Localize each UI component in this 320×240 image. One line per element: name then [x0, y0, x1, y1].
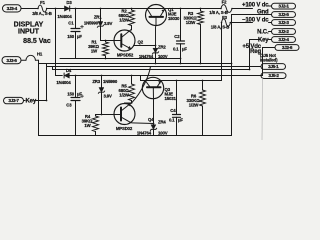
svg-text:3J2-1: 3J2-1: [278, 4, 289, 9]
wire Q4 emitter: [132, 122, 154, 125]
label +5 Vdc Reg: [242, 44, 278, 62]
wire Key link: [35, 100, 47, 102]
svg-text:1N5990: 1N5990: [103, 79, 118, 84]
wire 3J2-6 drop: [263, 48, 276, 76]
resistor R3: [184, 8, 204, 65]
bus B1 ground collect: [60, 58, 181, 60]
wire N.C. stub: [269, 31, 272, 33]
svg-text:µF: µF: [77, 91, 82, 96]
resistor R5: [118, 75, 134, 103]
bus B4: [53, 67, 250, 70]
wire -100 riser: [221, 23, 223, 81]
capacitor C2: [173, 8, 187, 65]
bus B2: [39, 60, 232, 63]
connector 3J2-5: [272, 12, 296, 18]
scan crease: [261, 79, 264, 141]
fuse F2: [209, 0, 233, 15]
wire Key riser left: [46, 64, 48, 101]
svg-text:1/2W: 1/2W: [119, 17, 130, 22]
svg-text:C4: C4: [170, 108, 176, 113]
svg-text:ZR3: ZR3: [92, 79, 100, 84]
svg-text:3J5-1: 3J5-1: [268, 64, 279, 69]
zener ZR3: [92, 75, 118, 115]
svg-text:DISPLAY: DISPLAY: [14, 22, 44, 29]
wire top rail: [21, 8, 38, 10]
svg-text:Q2: Q2: [138, 40, 144, 45]
svg-text:3J2-3: 3J2-3: [278, 20, 289, 25]
wire -100 row: [230, 22, 252, 24]
svg-text:H1: H1: [37, 52, 43, 57]
svg-text:D4: D4: [66, 68, 72, 73]
capacitor C4: [169, 80, 183, 136]
jumper H1: [21, 52, 43, 61]
svg-text:1N4004: 1N4004: [57, 14, 72, 19]
svg-text:MPSD52: MPSD52: [117, 53, 134, 58]
transistor Q3: [142, 77, 176, 101]
capacitor C1: [67, 8, 83, 59]
svg-text:3J3-6: 3J3-6: [6, 58, 17, 63]
svg-text:D3: D3: [66, 0, 72, 5]
wire Gnd row: [232, 14, 272, 16]
svg-text:1W: 1W: [91, 48, 98, 53]
svg-text:µF: µF: [178, 118, 183, 123]
wire bottom rail: [39, 135, 232, 137]
wire base line Q4: [96, 114, 122, 116]
svg-text:3.9V: 3.9V: [104, 93, 113, 98]
svg-text:ZR2: ZR2: [158, 44, 166, 49]
svg-text:F1: F1: [40, 0, 45, 5]
svg-text:1N5990: 1N5990: [84, 21, 99, 26]
wire base line Q2: [101, 40, 122, 42]
resistor R1: [88, 39, 108, 59]
svg-text:Key: Key: [26, 99, 37, 105]
svg-text:Installed): Installed): [260, 57, 278, 62]
connector 3J5-2: [261, 73, 286, 79]
wire Key riser right: [249, 40, 251, 70]
connector 3J2-6: [275, 45, 299, 51]
svg-text:3J2-5: 3J2-5: [278, 12, 289, 17]
svg-text:C2: C2: [174, 34, 180, 39]
svg-text:3J3-7: 3J3-7: [8, 98, 19, 103]
svg-text:3J2-6: 3J2-6: [282, 45, 293, 50]
connector 3J2-3: [272, 20, 296, 26]
svg-text:150: 150: [67, 91, 74, 96]
svg-text:100V: 100V: [158, 130, 168, 135]
svg-text:ZR4: ZR4: [158, 120, 166, 125]
connector 3J3-6: [2, 57, 21, 64]
wire Q2 emitter: [134, 45, 156, 47]
svg-text:−100 V dc: −100 V dc: [242, 18, 269, 24]
svg-text:1/2W: 1/2W: [119, 92, 130, 97]
transistor Q1: [146, 5, 180, 26]
zener ZR2: [139, 26, 168, 65]
connector 3J2-4: [272, 37, 296, 43]
svg-text:3.9V: 3.9V: [104, 21, 113, 26]
svg-text:F2: F2: [222, 0, 227, 5]
svg-text:150: 150: [67, 34, 74, 39]
fuse F3: [211, 15, 231, 30]
svg-text:1/2W: 1/2W: [186, 20, 197, 25]
svg-text:Key: Key: [258, 37, 269, 43]
svg-text:Gnd: Gnd: [257, 9, 269, 15]
connector 3J2-1: [272, 3, 296, 9]
svg-text:1/2W: 1/2W: [189, 102, 200, 107]
svg-text:15030: 15030: [168, 16, 180, 21]
svg-text:N.C.: N.C.: [257, 29, 269, 35]
transistor Q4: [114, 103, 154, 131]
transistor Q2: [114, 30, 144, 58]
wire bottom AC rail: [56, 75, 63, 77]
connector 3J3-4: [3, 5, 22, 12]
svg-text:88.5 Vac: 88.5 Vac: [23, 38, 51, 45]
svg-text:1W: 1W: [84, 123, 91, 128]
resistor R6: [187, 80, 206, 136]
svg-text:3J5-2: 3J5-2: [268, 73, 279, 78]
diode D4: [56, 68, 71, 85]
connector 3J2-2: [272, 29, 296, 35]
connector 3J3-7: [4, 97, 24, 103]
svg-text:0.1: 0.1: [169, 118, 175, 123]
svg-text:1/8 A, S-B: 1/8 A, S-B: [211, 25, 229, 30]
svg-text:1N4764: 1N4764: [137, 130, 152, 135]
svg-text:15031: 15031: [165, 96, 177, 101]
wire keying curve: [132, 67, 151, 103]
capacitor C3: [66, 75, 83, 136]
resistor R2: [118, 8, 134, 30]
svg-text:0.1: 0.1: [173, 47, 179, 52]
fuse F1: [32, 0, 51, 16]
wire Q3 output: [141, 80, 222, 82]
svg-text:1N4004: 1N4004: [56, 80, 71, 85]
zener ZR1: [84, 8, 113, 41]
svg-text:C1: C1: [68, 21, 74, 26]
svg-text:ZR1: ZR1: [94, 15, 102, 20]
wire Key left: [24, 100, 26, 102]
connector 3J5-1: [261, 64, 286, 70]
svg-text:µF: µF: [182, 47, 187, 52]
svg-text:3J2-4: 3J2-4: [278, 37, 289, 42]
svg-text:+100 V dc: +100 V dc: [242, 2, 269, 8]
resistor R4: [82, 114, 99, 136]
svg-text:F3: F3: [222, 15, 227, 20]
svg-text:INPUT: INPUT: [18, 29, 40, 36]
svg-text:3J2-2: 3J2-2: [278, 29, 289, 34]
node after F1: [55, 8, 57, 10]
svg-text:3J3-4: 3J3-4: [7, 6, 18, 11]
bus B3: [47, 64, 262, 67]
svg-text:µF: µF: [77, 34, 82, 39]
diode D3: [57, 0, 72, 19]
svg-text:3/8 A., S-B: 3/8 A., S-B: [32, 11, 51, 16]
zener ZR4: [137, 99, 168, 136]
svg-text:MPSD02: MPSD02: [116, 126, 133, 131]
label DISPLAY INPUT: [14, 22, 51, 45]
wire Gnd riser: [231, 15, 233, 136]
wire ground drop left: [38, 64, 40, 136]
svg-text:C3: C3: [66, 103, 72, 108]
wire AC drop left: [55, 9, 57, 76]
wire Q4 collector: [124, 102, 126, 105]
